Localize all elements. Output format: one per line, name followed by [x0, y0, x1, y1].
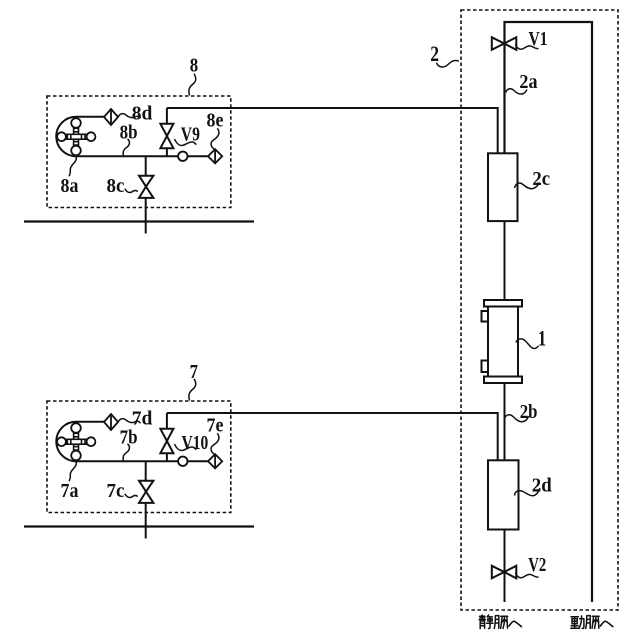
- svg-text:8: 8: [190, 55, 199, 76]
- svg-text:1: 1: [538, 326, 547, 351]
- svg-text:7e: 7e: [207, 415, 224, 437]
- svg-text:8a: 8a: [61, 175, 79, 197]
- svg-text:7c: 7c: [107, 480, 125, 502]
- svg-text:V10: V10: [182, 432, 209, 454]
- svg-text:8c: 8c: [107, 175, 125, 197]
- svg-text:7b: 7b: [120, 427, 138, 449]
- svg-text:7d: 7d: [132, 407, 153, 429]
- svg-text:2a: 2a: [519, 71, 537, 93]
- svg-text:2: 2: [430, 41, 439, 66]
- svg-text:2b: 2b: [520, 401, 538, 423]
- svg-text:V9: V9: [181, 123, 200, 145]
- svg-text:7a: 7a: [61, 480, 79, 502]
- svg-text:V1: V1: [529, 28, 548, 50]
- svg-text:8b: 8b: [120, 122, 138, 144]
- svg-text:2d: 2d: [532, 475, 552, 497]
- svg-text:7: 7: [190, 362, 199, 383]
- svg-text:8e: 8e: [207, 110, 224, 132]
- svg-text:V2: V2: [528, 554, 546, 576]
- svg-text:2c: 2c: [532, 168, 550, 190]
- svg-text:8d: 8d: [132, 102, 153, 124]
